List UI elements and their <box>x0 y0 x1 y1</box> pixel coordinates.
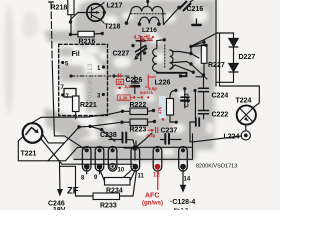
svg-text:Nr.1-2: Nr.1-2 <box>174 208 188 210</box>
svg-text:1n: 1n <box>118 80 123 85</box>
svg-text:7012.00.313: 7012.00.313 <box>87 63 94 102</box>
svg-text:47k: 47k <box>158 106 163 114</box>
node pin3 <box>102 93 105 96</box>
afc red wire <box>157 168 159 190</box>
resistor R218 <box>68 0 74 35</box>
wire junction arms <box>124 133 152 160</box>
core of L226 (dotted) <box>164 45 166 69</box>
svg-text:Fil: Fil <box>72 51 80 58</box>
resistor vertical (47k) <box>167 89 178 124</box>
highlight strip (blue) near 47k <box>159 96 166 118</box>
node pin1 <box>102 65 105 68</box>
svg-text:C238: C238 <box>100 132 117 139</box>
svg-text:L216: L216 <box>142 27 157 34</box>
svg-text:T221: T221 <box>21 151 37 158</box>
svg-text:L224: L224 <box>224 134 240 141</box>
wire T221 top <box>32 111 123 123</box>
wire transformer right <box>164 8 180 25</box>
pad pin8 <box>82 147 91 175</box>
pad pin9 <box>95 147 104 175</box>
svg-text:R216: R216 <box>79 39 96 46</box>
node R223 <box>120 120 156 124</box>
wire T218 collector/emitter stubs <box>101 3 107 24</box>
node C227 <box>131 44 146 55</box>
filter FIL dashed box <box>59 44 108 115</box>
capacitor C226 <box>112 74 139 93</box>
svg-text:R218: R218 <box>51 5 68 12</box>
wire left vertical bus <box>49 2 54 62</box>
svg-text:C226: C226 <box>126 77 143 84</box>
wire L226 bottom <box>175 65 193 72</box>
node wires <box>77 125 103 132</box>
transistor T221 <box>23 123 43 143</box>
capacitor C216 (diagonal plates) <box>180 0 194 11</box>
black text labels <box>21 3 256 215</box>
svg-text:(gn/ws): (gn/ws) <box>142 201 163 207</box>
resistor R234 <box>100 170 135 185</box>
dash-dot line through filter <box>71 75 131 77</box>
red annotations <box>116 35 164 207</box>
transistor T218 <box>87 4 104 21</box>
svg-text:18V: 18V <box>53 207 66 210</box>
pad box inside filter <box>64 89 76 98</box>
gray scan wash <box>4 0 216 162</box>
wire R227 to cluster <box>191 42 204 88</box>
node pin5 <box>61 61 64 64</box>
node R222 <box>121 109 155 113</box>
node junction bold <box>132 145 137 150</box>
resistor R233 <box>76 172 137 200</box>
svg-text:T218: T218 <box>105 24 121 31</box>
wire top-right vertical <box>216 0 234 86</box>
svg-text:10: 10 <box>118 168 125 174</box>
transistor T224 <box>237 105 256 124</box>
wire pad11 diagonal <box>120 167 135 181</box>
capacitor C224 <box>199 88 209 98</box>
wire long horizontal 1 <box>74 147 193 159</box>
diode D227 (upper) <box>229 39 238 64</box>
svg-text:R227: R227 <box>208 62 225 69</box>
wire to C246 arrow <box>57 161 63 197</box>
node pin7 <box>61 74 72 96</box>
wire pin14 arrow <box>180 169 186 193</box>
resistor R227 <box>201 41 207 75</box>
coil L224 (circled dot) <box>241 131 250 140</box>
wire lower horizontal <box>60 166 76 196</box>
ground symbol <box>192 19 200 25</box>
trimmer capacitor C227 <box>134 37 147 61</box>
wire cluster nodes <box>179 44 208 78</box>
svg-text:14: 14 <box>184 177 191 183</box>
wire T221 base left <box>18 136 23 161</box>
svg-text:L217: L217 <box>107 3 123 10</box>
wire T221 middle <box>42 122 123 164</box>
capacitor plates near module edge <box>196 118 199 126</box>
wire box T224 top <box>220 86 260 109</box>
inductor L216 winding (second row) <box>138 17 161 26</box>
svg-text:L226: L226 <box>155 80 171 87</box>
paper background <box>0 0 280 210</box>
svg-text:R234: R234 <box>106 188 123 195</box>
node B <box>177 6 180 9</box>
svg-text:2,2k: 2,2k <box>125 84 134 89</box>
resistor R222 <box>123 108 154 115</box>
capacitor C223 <box>181 87 189 108</box>
core of L216 (dotted) <box>131 13 167 15</box>
wire T224 emitter <box>245 125 247 131</box>
pad pin11 <box>131 147 140 172</box>
pad pin10 <box>108 147 117 172</box>
svg-text:5,6p: 5,6p <box>148 86 157 91</box>
diode D227 (lower) <box>216 64 238 83</box>
svg-text:4,3p: 4,3p <box>147 133 156 138</box>
svg-text:R222: R222 <box>130 102 147 109</box>
svg-text:R233: R233 <box>100 203 117 210</box>
node C <box>202 40 206 76</box>
inductor L226 right winding <box>170 50 187 69</box>
svg-text:T224: T224 <box>236 98 252 105</box>
svg-text:·C128-4: ·C128-4 <box>170 199 195 206</box>
resistor R221 <box>73 96 80 119</box>
node A <box>69 20 72 36</box>
svg-text:C227: C227 <box>113 51 130 58</box>
wire bottom mid <box>109 140 181 149</box>
svg-text:C222: C222 <box>212 112 229 119</box>
wire L226 top bar <box>157 73 187 76</box>
svg-text:C223: C223 <box>185 92 191 107</box>
resistor R216 <box>71 31 104 37</box>
svg-text:R221: R221 <box>80 102 97 109</box>
capacitor C222 <box>199 98 209 119</box>
pad pin12 <box>153 147 162 172</box>
pad pin14 <box>179 147 188 172</box>
svg-text:ZF: ZF <box>67 186 79 197</box>
node L226 top <box>163 38 166 41</box>
svg-text:3,2k: 3,2k <box>119 95 128 100</box>
resistor R223 <box>122 119 155 126</box>
capacitor C238 plates <box>123 133 127 143</box>
svg-text:AFC: AFC <box>145 193 159 200</box>
wire long horizontal 2 <box>62 163 133 165</box>
svg-text:C216: C216 <box>187 6 204 13</box>
wire T218 base <box>71 13 87 23</box>
svg-text:11: 11 <box>138 174 145 180</box>
inductor L226 left winding <box>153 40 165 73</box>
wire vertical right of C223 <box>193 89 196 118</box>
capacitor C237 plates <box>165 134 169 144</box>
svg-text:R223: R223 <box>130 127 147 134</box>
svg-text:C237: C237 <box>161 128 178 135</box>
svg-text:12: 12 <box>153 173 160 179</box>
svg-text:D227: D227 <box>239 54 256 61</box>
svg-text:8200K/VSO1713: 8200K/VSO1713 <box>196 164 237 170</box>
wire bus lower <box>52 62 86 150</box>
wire L224 left <box>190 122 241 142</box>
wires node cluster <box>179 34 216 80</box>
inductor L217 winding (top row) <box>125 0 164 25</box>
svg-text:C224: C224 <box>212 93 229 100</box>
white mottling <box>84 9 214 156</box>
module outline bottom <box>18 134 192 161</box>
